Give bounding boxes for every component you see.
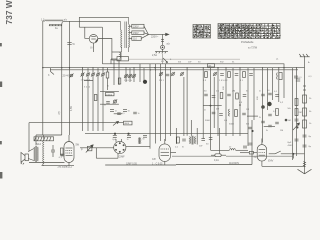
svg-text:110/220V: 110/220V [229, 162, 239, 165]
label 5W [76, 144, 80, 146]
vertical label [223, 86, 259, 100]
wires bottom of V3 group verticals into audio [150, 141, 156, 149]
svg-text:4,5V: 4,5V [70, 106, 73, 111]
resistor R7 [303, 95, 307, 103]
mid verticals group2 [83, 68, 108, 131]
label S12 [36, 142, 41, 146]
svg-text:220V~: 220V~ [151, 36, 159, 39]
capacitor C36 [268, 93, 272, 95]
arrow tap [293, 123, 300, 130]
big table [218, 24, 280, 40]
capacitor C17 [201, 139, 205, 141]
bus line C [50, 69, 298, 71]
resistor R10 [295, 109, 298, 116]
labels cluster2 [204, 90, 249, 126]
capacitor C40 [268, 125, 272, 127]
label bottom-left [58, 166, 68, 168]
capacitor C32 [227, 94, 231, 96]
resistor R4 [277, 73, 282, 80]
small text top right [248, 47, 258, 49]
trimmer CT4 [91, 73, 95, 77]
capacitor C1 [67, 43, 75, 47]
svg-text:8µF: 8µF [288, 142, 292, 144]
capacitor C19 [182, 139, 186, 141]
vertical x29 [28, 123, 30, 152]
wire h156 [172, 155, 215, 157]
svg-text:30t: 30t [208, 64, 211, 67]
dot P5 [285, 119, 299, 129]
wires bottom-left [29, 135, 74, 166]
svg-text:50t: 50t [246, 123, 249, 126]
wire h150 [211, 149, 230, 151]
label Fe [55, 27, 58, 30]
coil box L2 [112, 52, 121, 60]
wire trimmer bar [84, 80, 93, 82]
choke L5 [230, 149, 236, 150]
ground arrow [298, 162, 312, 174]
svg-text:1→C 0,05: 1→C 0,05 [152, 163, 163, 165]
label 1,0 [41, 19, 45, 22]
svg-text:1 0 0 2k: 1 0 0 2k [124, 80, 133, 82]
antenna symbol [299, 54, 310, 68]
wire vertical x69.5 [69, 21, 71, 135]
capacitor D3 [143, 135, 148, 140]
connector plug [161, 45, 165, 49]
label EL [66, 165, 72, 169]
caps left of V5 [243, 146, 247, 148]
table caption [241, 40, 254, 44]
svg-text:1 0 5 0 2: 1 0 5 0 2 [219, 80, 228, 82]
svg-text:S12: S12 [36, 142, 41, 146]
svg-text:EL11: EL11 [66, 165, 72, 169]
svg-text:Prüftabelle: Prüftabelle [241, 40, 254, 44]
capacitor C42 [220, 74, 224, 76]
svg-text:1M: 1M [288, 120, 291, 122]
box 30t [208, 64, 215, 68]
label 20uF [63, 74, 71, 78]
capacitor C20 [295, 119, 299, 121]
capacitor C16 [61, 154, 65, 156]
resistor R20 [118, 78, 121, 84]
voltage tap box 150 [132, 31, 144, 35]
label 0,1 [59, 157, 63, 159]
tick marks rail [303, 86, 306, 90]
capacitor C7 [106, 102, 110, 104]
svg-text:1M: 1M [280, 130, 283, 132]
capacitor C13 [296, 79, 300, 81]
right rail wire [304, 68, 306, 167]
trimmer CT8 [128, 74, 132, 78]
verticals group4 [171, 68, 215, 151]
voltage tap box 220 [132, 24, 144, 28]
trimmer CT13 [213, 72, 217, 76]
switch S1 [48, 68, 54, 77]
svg-text:150V: 150V [133, 32, 139, 35]
title 737 W [4, 0, 14, 24]
lower horizontals [29, 122, 124, 124]
capacitor C15 [51, 145, 55, 157]
label V5 [268, 160, 273, 163]
svg-text:2M: 2M [232, 91, 235, 93]
field coil L4 [43, 135, 44, 166]
svg-text:450V: 450V [288, 145, 294, 147]
label 220V~ [151, 36, 159, 39]
capacitor C38 [261, 121, 265, 123]
capacitor C8 [117, 113, 121, 115]
switch S2 [269, 151, 305, 154]
svg-text:5 2 1k: 5 2 1k [84, 87, 91, 89]
label 01A [214, 159, 219, 162]
IF transformer T3 [190, 136, 196, 145]
junction dots [42, 67, 285, 68]
triode tube V4 [159, 139, 176, 165]
label 2,5 vertical [59, 111, 61, 115]
tube V1 [89, 35, 98, 53]
chassis bar [152, 49, 168, 57]
pot circle P4 [113, 99, 117, 103]
capacitor D2 [127, 136, 132, 141]
svg-text:4000: 4000 [124, 123, 130, 125]
junction dots on wire [114, 133, 130, 135]
resistor R5 wavy [229, 109, 230, 116]
resistor R9 [303, 120, 307, 128]
capacitor C39 [268, 114, 272, 116]
svg-text:110: 110 [133, 38, 137, 41]
capacitor C12 [242, 113, 246, 115]
svg-text:5000: 5000 [229, 124, 235, 126]
resistor R8 [303, 108, 307, 116]
junction dot [293, 153, 295, 155]
trimmer CT9 [132, 74, 136, 78]
capacitor C18 [209, 138, 213, 140]
mid verticals group3 [114, 60, 165, 141]
svg-text:Dr: Dr [229, 146, 232, 149]
box P [81, 145, 93, 153]
wire h126 [264, 126, 275, 128]
label under V4 [152, 163, 163, 165]
trimmer CT5 [96, 73, 100, 77]
svg-text:C/MF: C/MF [119, 156, 125, 159]
label cluster1 [104, 104, 140, 116]
trimmer CT10 [159, 72, 163, 76]
output tube V2 [64, 135, 74, 166]
capacitor C33 [243, 95, 247, 97]
svg-text:U f: U f [90, 46, 94, 50]
wire vertical x61.75 [61, 21, 64, 135]
labels above bus [161, 59, 279, 64]
resistor R15 [220, 93, 223, 99]
svg-text:2,5A: 2,5A [152, 54, 157, 57]
resistor R17 [276, 109, 279, 116]
switch arrow S3 [113, 121, 119, 125]
label tube V4 [152, 158, 156, 161]
capacitor C9 [133, 112, 137, 114]
capacitor D1 [112, 136, 117, 141]
fuse box on wire [240, 151, 258, 159]
label ab [64, 19, 68, 22]
resistor R12 [177, 137, 180, 143]
label box 10000 [105, 93, 114, 97]
bus line A [102, 59, 284, 68]
svg-text:C/MF 0,05: C/MF 0,05 [126, 163, 137, 165]
wires socket [80, 148, 176, 165]
resistor R2 [106, 72, 109, 78]
svg-text:3000: 3000 [205, 120, 211, 122]
wire h164 [176, 164, 252, 166]
trimmer CT11 [171, 72, 175, 76]
small table speckles [194, 25, 211, 38]
wire h105 [203, 105, 222, 107]
wire antenna left vertical [42, 21, 44, 135]
svg-text:EAV: EAV [268, 160, 273, 163]
wire h116 [247, 115, 258, 117]
capacitor C37 [275, 95, 279, 97]
resistor R6 [235, 110, 238, 117]
tap wires [129, 26, 149, 38]
svg-text:2M: 2M [299, 112, 302, 114]
power transformer T1 [120, 17, 129, 52]
trimmer CT3 [86, 73, 90, 77]
capacitor C31 [212, 96, 216, 98]
label 2x005 [126, 163, 137, 165]
audio labels row [175, 144, 232, 149]
capacitor C22 [303, 145, 307, 147]
svg-text:0,1A: 0,1A [214, 159, 219, 162]
faint upper line [129, 58, 241, 60]
rectifier tube V5 [257, 139, 266, 167]
voltage tap box 110 [132, 37, 141, 41]
verticals group6 [263, 68, 297, 160]
row labels left [81, 80, 91, 89]
svg-text:20 4-5: 20 4-5 [63, 74, 71, 78]
capacitor C5 [166, 74, 170, 76]
capacitor C6 [294, 76, 302, 79]
wire v5 bottom to rail [262, 165, 305, 167]
bus junction dots row [82, 67, 297, 70]
svg-text:1M: 1M [246, 109, 249, 111]
svg-text:737 W: 737 W [4, 0, 14, 24]
pot dot P1 [143, 80, 147, 84]
trimmer CT2 [81, 73, 85, 77]
capacitor C10 [212, 112, 216, 114]
fuse pill F2 [211, 154, 226, 157]
svg-text:2µF: 2µF [112, 139, 116, 141]
table cell text speckles [219, 24, 281, 39]
label CMF [119, 156, 125, 159]
svg-text:30t: 30t [178, 61, 181, 64]
capacitor C44 [249, 74, 253, 76]
row labels mid [124, 80, 133, 82]
label 110/220 [229, 162, 239, 165]
bus top box [117, 57, 129, 61]
oscillator loop wires [79, 17, 128, 63]
box 4000 [124, 121, 133, 125]
junction dots cluster [210, 104, 254, 132]
antenna coil L1 [45, 20, 63, 26]
resistor R11 [60, 148, 63, 155]
mains wires down [162, 54, 164, 64]
capacitor C21 [303, 135, 307, 137]
svg-text:5t: 5t [73, 43, 75, 46]
pot dot P2 [267, 102, 271, 106]
label Uf [90, 46, 94, 50]
tick at rail [293, 154, 295, 159]
trimmer CT12 [180, 72, 184, 76]
svg-text:220V: 220V [133, 25, 139, 28]
trimmer CT7 [124, 74, 128, 78]
wire coil to top [43, 20, 45, 22]
resistor R13 [94, 95, 97, 101]
svg-text:2M: 2M [216, 109, 219, 111]
svg-text:zu 737W: zu 737W [248, 47, 258, 49]
svg-text:2 5 1: 2 5 1 [159, 80, 165, 82]
svg-text:50t: 50t [288, 107, 291, 110]
socket tube V3 [114, 139, 150, 158]
resistor R16 [236, 93, 239, 99]
trimmer CT6 [101, 73, 105, 77]
output transformer T2 [28, 146, 38, 162]
wire tube right [98, 39, 112, 53]
mini transformer T4 [138, 137, 141, 144]
cap stack x112 [110, 110, 117, 113]
verticals group5 [218, 68, 254, 165]
capacitor C11 [219, 114, 223, 116]
resistor R18 [228, 72, 231, 78]
small table [193, 25, 211, 39]
capacitor C35 [261, 94, 265, 96]
pot dot P3 [261, 105, 265, 109]
resistor R19 [243, 72, 246, 78]
speaker LS [21, 152, 29, 164]
capacitor C34 [248, 127, 252, 129]
block labels [259, 90, 284, 133]
hatched box dial [34, 137, 54, 141]
mains arrow wire [149, 33, 169, 35]
scan edge marks [0, 43, 2, 179]
resistor R3 [205, 72, 208, 78]
capacitor C30 [204, 94, 208, 96]
svg-text:C/F: C/F [152, 158, 156, 161]
switch contacts [161, 34, 170, 45]
mains symbols [163, 58, 168, 63]
capacitor C43 [235, 74, 239, 76]
resistor R14 [295, 99, 298, 106]
bus line B [43, 67, 305, 69]
capacitor C41 [275, 122, 279, 124]
label 4,5V [70, 106, 73, 111]
svg-text:10000: 10000 [106, 94, 113, 96]
trimmer CT1 [70, 74, 74, 78]
right column labels [288, 61, 313, 148]
capacitor C14 [295, 139, 299, 141]
